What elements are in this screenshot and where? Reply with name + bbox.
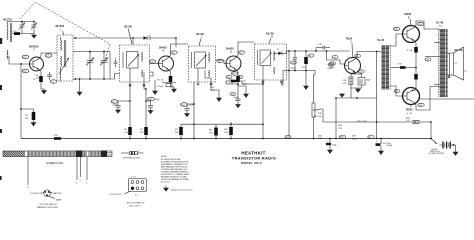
transistor Q2 2N410 1st IF xyxy=(157,46,174,72)
switch SW1 on-off xyxy=(430,138,438,146)
ground Q4 emitter xyxy=(356,89,361,92)
IF transformer T2 label 52-28 xyxy=(124,25,132,45)
capacitor C18 emitter bypass xyxy=(358,78,371,86)
svg-text:52-28: 52-28 xyxy=(124,25,132,29)
wire to Q6 emitter xyxy=(414,80,416,92)
wire IF3 drop xyxy=(262,80,264,139)
IF transformer T2 dashed can xyxy=(120,45,150,82)
label emitter xyxy=(53,193,62,195)
transistor Q6 output lower xyxy=(403,88,420,105)
ground C10 xyxy=(148,111,153,114)
svg-text:52-29: 52-29 xyxy=(196,32,204,36)
capacitor C30 filter xyxy=(376,138,393,151)
antenna rod coil T1 primary xyxy=(7,23,12,42)
svg-text:51-46: 51-46 xyxy=(436,21,444,25)
wire Q4 emitter bottom xyxy=(351,85,362,99)
svg-text:COLLECTOR: COLLECTOR xyxy=(30,193,43,195)
svg-text:BASE: BASE xyxy=(56,198,62,201)
label R5 1K xyxy=(157,80,164,82)
capacitor C13 agc xyxy=(230,84,241,105)
wire branch to C6 xyxy=(118,101,130,106)
svg-text:.05μF: .05μF xyxy=(329,67,335,69)
wire emitters common xyxy=(415,53,417,75)
oscillator coil L2 dashed can xyxy=(57,35,73,81)
resistor R16 bias (block) xyxy=(398,64,416,69)
svg-text:32Ω: 32Ω xyxy=(54,135,58,137)
wire rod lead 1 xyxy=(27,157,29,190)
ground C8 bypass xyxy=(153,80,158,94)
label bottom view all coils xyxy=(127,203,145,208)
output transistor Q5 2N250 label xyxy=(405,12,412,26)
ground Q3 emitter xyxy=(244,94,249,97)
ground Q1 emitter xyxy=(42,91,47,94)
capacitor C11 xyxy=(185,104,195,114)
svg-text:NOTE: NOTE xyxy=(161,156,167,158)
voltage callout 25V xyxy=(318,136,322,140)
svg-text:EMITTER: EMITTER xyxy=(53,193,62,195)
label oval R7b xyxy=(231,72,237,76)
label oval R12a xyxy=(329,62,336,69)
tuning gang box C1 xyxy=(73,51,110,80)
label oval bus junction 0 xyxy=(285,135,291,139)
resistor R4 Q2 emitter (block) xyxy=(169,76,173,82)
oscillator coil label 40-301 xyxy=(55,24,65,35)
wire T6 to speaker xyxy=(448,54,450,78)
ground driver area xyxy=(340,93,345,97)
svg-text:4.7K: 4.7K xyxy=(343,83,348,85)
label oval R5 xyxy=(238,51,244,55)
resistor R18 (block) xyxy=(414,74,418,80)
svg-text:2.2K: 2.2K xyxy=(406,120,411,122)
label voltage Q6 xyxy=(407,112,412,115)
svg-text:237A: 237A xyxy=(352,137,357,140)
wire detector rail xyxy=(285,50,351,53)
svg-text:C: C xyxy=(350,41,352,44)
label oval C6 xyxy=(111,100,118,107)
diode D1 AVC xyxy=(142,36,151,41)
label base xyxy=(56,198,62,201)
label C11 xyxy=(181,103,195,107)
ground Q2 emitter xyxy=(172,89,177,92)
wire Q5 collector to T6 xyxy=(414,21,440,29)
driver transformer T5 label 51-45 xyxy=(377,38,385,42)
resistor R6a on bus (block) xyxy=(124,127,132,135)
label oval C4 xyxy=(22,69,29,73)
transistor socket bottom view pictorial xyxy=(43,190,56,199)
capacitor C29 filter xyxy=(326,138,337,150)
antenna coil label 40-272 xyxy=(3,18,12,22)
resistor R12 on bus (block) xyxy=(224,122,233,139)
svg-text:VOLUME CONTROL: VOLUME CONTROL xyxy=(429,153,445,155)
svg-text:BOTTOM VIEW OF: BOTTOM VIEW OF xyxy=(127,203,145,205)
svg-text:4 + A: 4 + A xyxy=(407,49,413,52)
IF transformer T4 label 52-30 xyxy=(266,32,274,44)
wire coupling to driver xyxy=(327,51,345,64)
svg-text:Indicates chassis connection.: Indicates chassis connection. xyxy=(171,189,193,192)
capacitor C6 bypass xyxy=(116,106,121,111)
label oval C9 xyxy=(217,59,223,63)
speaker SP1 xyxy=(450,47,467,80)
svg-text:M: M xyxy=(271,36,273,39)
resistor R26 feedback xyxy=(406,118,419,124)
wire R10 node xyxy=(226,81,263,85)
ground osc xyxy=(60,77,62,81)
wire Q2 emitter gnd path xyxy=(162,82,176,89)
capacitor C12 detector filter xyxy=(290,51,297,71)
chassis connection note xyxy=(164,186,194,192)
wire cap common xyxy=(12,30,34,34)
svg-text:4 + A: 4 + A xyxy=(407,112,412,115)
resistor R7 on bus (block) xyxy=(140,127,148,135)
wire IF2 drop xyxy=(193,82,195,127)
svg-text:51-45: 51-45 xyxy=(377,38,385,42)
label bottom view transistor socket xyxy=(37,204,59,209)
wire Q4 emitter xyxy=(351,72,362,78)
label oval R15 xyxy=(393,27,399,31)
capacitor C9 5uF xyxy=(157,84,173,88)
transistor Q4 2N234A driver xyxy=(345,37,361,74)
IF transformer T4 core and windings xyxy=(258,50,283,83)
IF transformer T3 dashed can xyxy=(189,46,216,82)
wire Q2 emitter xyxy=(169,70,171,77)
resistor R2 emitter (block) xyxy=(33,76,43,82)
ground R24 xyxy=(217,98,222,101)
label crystal diode xyxy=(123,157,141,160)
driver transformer T5 xyxy=(382,45,391,90)
wire rod lead 2 xyxy=(76,157,78,185)
label oval R11 xyxy=(327,63,334,70)
wire IF1 bottom drop xyxy=(129,82,131,127)
resistor R10 (block) xyxy=(226,75,243,82)
label 238 on bus xyxy=(352,136,357,141)
wire detector bus drop xyxy=(335,98,337,139)
output transformer T6 xyxy=(434,29,448,97)
svg-text:CRYSTAL DIODE: CRYSTAL DIODE xyxy=(123,157,141,160)
label R20 270 ohm xyxy=(357,121,367,123)
ground C13 xyxy=(236,105,241,108)
svg-text:.05μF: .05μF xyxy=(290,68,296,70)
ground tuning gang xyxy=(77,78,82,95)
svg-text:1.5K: 1.5K xyxy=(36,78,41,80)
wire emitter to ground xyxy=(41,82,44,91)
output transformer T6 label 51-46 xyxy=(436,21,444,28)
svg-text:2.2K: 2.2K xyxy=(338,128,343,130)
label oval bus junction 1 xyxy=(339,135,345,139)
label oval C2 xyxy=(22,55,29,59)
wire T4 secondary return xyxy=(282,71,284,86)
label oval C21 xyxy=(418,103,424,107)
wire antenna top xyxy=(7,22,34,24)
wire Q5 emitter down xyxy=(407,41,416,53)
wire AVC bus drop xyxy=(288,50,290,138)
IF transformer T3 core and windings xyxy=(192,52,213,85)
label R2 value xyxy=(36,75,41,80)
diode D2 detector xyxy=(274,49,285,55)
ground antenna xyxy=(32,34,37,39)
resistor R9 on bus (block) xyxy=(175,123,264,139)
svg-text:25μF: 25μF xyxy=(366,80,371,82)
wire T2 secondary to Q2 base xyxy=(150,64,158,77)
resistor R17 (block) xyxy=(414,47,418,53)
coil bottom view pictorial xyxy=(129,177,147,197)
svg-text:MODEL XR-2: MODEL XR-2 xyxy=(241,161,262,165)
svg-text:COLOR DOT: COLOR DOT xyxy=(110,194,123,196)
svg-text:.05μF: .05μF xyxy=(189,104,195,106)
transistor Q5 output upper xyxy=(403,26,420,43)
svg-text:40-301: 40-301 xyxy=(55,24,65,28)
title block HEATHKIT xyxy=(232,150,276,165)
wire cap taps xyxy=(21,21,35,25)
svg-text:270Ω: 270Ω xyxy=(362,121,367,123)
label oval R13 xyxy=(358,70,364,74)
wire T5 center tap xyxy=(390,67,400,69)
label oval C7 xyxy=(149,60,155,64)
wire Q3 emitter xyxy=(236,70,238,77)
antenna coil T1 secondary xyxy=(7,50,8,59)
wire osc top link xyxy=(73,37,142,45)
wire IF2 drop to bus xyxy=(193,127,195,139)
wire Q1 collector xyxy=(39,53,57,59)
label oval C3 xyxy=(45,54,52,58)
wire Q3 emitter gnd xyxy=(238,82,246,94)
IF transformer T4 dashed can xyxy=(255,44,287,80)
wire T5 secondary top to Q5 base xyxy=(389,34,403,46)
label Q6 R250 xyxy=(406,105,413,111)
svg-text:C9 5μF: C9 5μF xyxy=(157,86,164,88)
tuning gang mechanical linkage (dashed) xyxy=(20,2,110,59)
label oval bus junction 2 xyxy=(368,135,374,139)
volume control R19 potentiometer xyxy=(312,100,323,139)
wire T2 primary return xyxy=(110,74,120,80)
resistor R21 in bus (block) xyxy=(54,135,61,140)
trimmer capacitor C1B xyxy=(31,23,37,31)
ferrite antenna rod pictorial xyxy=(3,151,112,158)
label oval R17b xyxy=(394,89,400,93)
variable capacitor C1D (ant section) xyxy=(100,52,108,80)
label R862 xyxy=(314,116,318,118)
svg-text:10μF: 10μF xyxy=(155,99,160,101)
resistor R8 volume feed (block) xyxy=(302,54,314,69)
label C10 xyxy=(148,97,161,101)
wire R7 to bus xyxy=(145,135,147,139)
label C26 xyxy=(242,81,248,86)
resistor R24 secondary return xyxy=(211,82,220,98)
svg-text:ALL COILS: ALL COILS xyxy=(130,204,141,207)
label on-off switch xyxy=(429,149,445,155)
bottom bus wire B- xyxy=(21,138,432,140)
wire detector lower rail xyxy=(283,70,315,72)
ground R3 xyxy=(31,120,36,126)
label R136 xyxy=(338,125,343,130)
voltage callout 21.5V xyxy=(380,143,391,145)
capacitor C16 AVC xyxy=(316,44,330,51)
variable capacitor C1C (osc section) xyxy=(86,52,94,80)
label oval C8 xyxy=(171,51,177,55)
oscillator coil windings xyxy=(59,37,69,77)
resistor R14 Q4 emitter xyxy=(343,77,353,85)
label oval C20 xyxy=(417,22,423,26)
IF transformer T2 core and windings xyxy=(123,52,144,83)
ground C29 xyxy=(328,150,333,153)
svg-text:TRANSISTOR RADIO: TRANSISTOR RADIO xyxy=(232,156,276,161)
transistor Q1 2N410A converter xyxy=(29,45,44,72)
svg-text:50μF: 50μF xyxy=(332,145,337,147)
svg-text:100μF: 100μF xyxy=(387,145,393,147)
label antenna coil xyxy=(46,162,64,165)
resistor R6 Q3 emitter (block) xyxy=(229,76,240,85)
wire driver emitter rail xyxy=(335,97,377,99)
wire rod lead 4 xyxy=(86,157,88,185)
capacitor C6a osc coupling xyxy=(114,59,118,68)
label collector xyxy=(30,193,43,195)
transistor Q3 2N410 2nd IF xyxy=(226,47,241,72)
wire feedback line xyxy=(321,52,432,140)
svg-text:40-272: 40-272 xyxy=(3,18,12,22)
capacitor C10 xyxy=(146,101,153,111)
resistor R1 (block) xyxy=(13,31,20,35)
wire left AVC vertical bottom section xyxy=(20,108,33,112)
svg-text:3.2: 3.2 xyxy=(464,71,467,73)
svg-text:4.7K: 4.7K xyxy=(211,90,216,92)
wire Q4 collector to T5 xyxy=(355,51,382,59)
wire Q6 collector to T6 xyxy=(414,87,440,111)
battery B1 xyxy=(440,142,456,149)
notes text block xyxy=(161,156,190,183)
wire T5 secondary bottom to Q6 base xyxy=(389,86,403,96)
wire R6a to bus xyxy=(129,135,131,139)
wire rod lead 3 xyxy=(80,157,82,182)
scan edge artifact marks xyxy=(0,38,2,180)
wire Q2 drop xyxy=(145,89,147,127)
svg-text:TRANSISTOR SOCKET: TRANSISTOR SOCKET xyxy=(37,206,59,209)
ground C30 xyxy=(379,151,384,155)
wire Q2 collector xyxy=(169,44,189,58)
wire T3 secondary to Q3 base xyxy=(205,60,226,82)
wire AVC to Q2 xyxy=(149,37,177,47)
crystal diode pictorial xyxy=(121,150,144,155)
ground battery xyxy=(453,145,458,155)
svg-text:1.5K: 1.5K xyxy=(124,132,129,134)
wire R8 to lower rail and pot xyxy=(306,51,315,100)
ground detector xyxy=(304,71,309,90)
wire base feed xyxy=(9,56,29,65)
resistor R3 (block) xyxy=(25,112,35,120)
svg-text:5.6K: 5.6K xyxy=(224,132,229,134)
IF transformer T3 label 52-29 xyxy=(196,32,204,46)
capacitor C5 emitter bypass xyxy=(47,72,57,83)
ground C6 xyxy=(116,110,121,113)
trimmer capacitor C1A xyxy=(19,23,25,34)
label color dot xyxy=(110,191,131,196)
wire T2 bottom pins xyxy=(129,82,147,90)
wire center tap T6 xyxy=(425,57,440,62)
wire Q1 emitter chain xyxy=(39,70,41,77)
svg-text:ANTENNA COIL: ANTENNA COIL xyxy=(46,162,64,165)
wire Q3 collector xyxy=(236,42,254,58)
ground C11 xyxy=(185,114,190,117)
label oval C19 xyxy=(355,54,361,58)
node AVC tap wire xyxy=(20,64,22,138)
resistor R11b on bus (block) xyxy=(209,124,218,139)
svg-text:.05μF: .05μF xyxy=(233,97,239,99)
speaker label 401-1B xyxy=(454,48,463,52)
wire speaker return xyxy=(419,98,474,100)
